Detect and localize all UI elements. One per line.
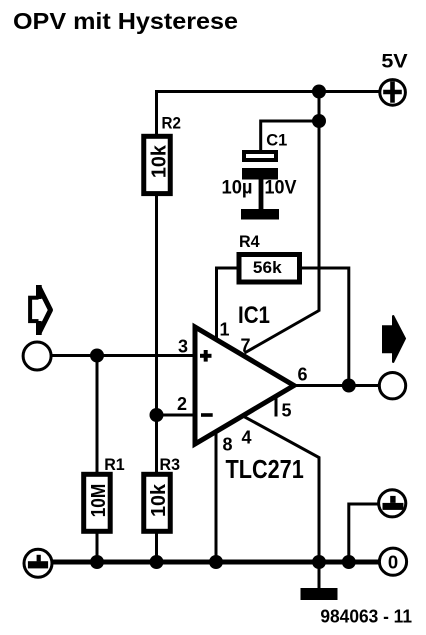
svg-text:56k: 56k (253, 258, 282, 277)
wire R4 right to output (302, 268, 349, 386)
wire C1 branch (261, 121, 319, 152)
svg-text:5: 5 (282, 401, 292, 421)
node junction C1 tap (312, 114, 326, 128)
wire pin2 (157, 414, 195, 417)
output arrow (383, 316, 405, 363)
svg-text:IC1: IC1 (238, 302, 270, 329)
node junction rail R1 (90, 555, 104, 569)
svg-text:3: 3 (178, 337, 188, 357)
svg-text:10V: 10V (265, 178, 297, 199)
output terminal (379, 373, 405, 399)
node junction divider pin2 (150, 408, 164, 422)
node junction rail ground (312, 555, 326, 569)
ground main (301, 588, 338, 600)
svg-text:2: 2 (177, 394, 187, 414)
node junction top rail (312, 85, 326, 99)
input terminal (23, 342, 51, 370)
svg-text:10k: 10k (147, 483, 170, 517)
node junction rail earth (342, 555, 356, 569)
capacitor C1 (222, 131, 297, 199)
svg-text:10M: 10M (87, 484, 110, 518)
svg-text:R4: R4 (239, 233, 260, 251)
input arrow (30, 285, 50, 335)
resistor R4 (239, 233, 300, 282)
terminal earth left (24, 549, 52, 577)
svg-text:984063 - 11: 984063 - 11 (320, 607, 412, 627)
svg-text:R2: R2 (162, 115, 181, 133)
op-amp plus input mark (200, 350, 212, 362)
svg-text:R3: R3 (160, 456, 181, 474)
node junction output (342, 379, 356, 393)
wire R4 left to pin1 (217, 268, 238, 341)
resistor R2 (144, 115, 181, 194)
wire earth terminal branch (349, 504, 378, 563)
wire bottom ground rail (52, 560, 379, 565)
wire top 5V rail (157, 90, 380, 93)
svg-text:6: 6 (298, 365, 308, 385)
wire pin7 diagonal (245, 311, 320, 354)
terminal 0 (379, 548, 406, 575)
wire pin4 to ground (243, 416, 319, 589)
svg-text:1: 1 (220, 320, 230, 340)
svg-text:8: 8 (223, 435, 233, 455)
wire pin8 vertical (215, 431, 218, 563)
op-amp U1 triangle (195, 327, 294, 444)
node junction rail R3 (150, 555, 164, 569)
power terminal 5V (380, 52, 408, 106)
wire R2 top drop / divider vertical x=156.5 (155, 90, 158, 563)
svg-text:OPV mit Hysterese: OPV mit Hysterese (13, 8, 238, 34)
node junction rail pin8 (209, 555, 223, 569)
resistor R1 (84, 456, 125, 531)
svg-text:TLC271: TLC271 (226, 456, 304, 484)
terminal earth right (379, 490, 406, 517)
svg-text:4: 4 (242, 428, 252, 448)
wire R1 vertical x=97 (96, 356, 99, 564)
resistor R3 (144, 456, 180, 531)
wire output pin6 (294, 384, 380, 387)
svg-text:10k: 10k (148, 145, 171, 179)
wire pin5 stub (275, 396, 278, 417)
svg-text:C1: C1 (266, 131, 287, 150)
ground C1 (241, 180, 279, 220)
svg-text:7: 7 (241, 336, 251, 356)
svg-text:R1: R1 (104, 456, 125, 474)
wire 5V vertical drop x=319 (318, 92, 321, 312)
node junction input/R1 (90, 349, 104, 363)
svg-text:10µ: 10µ (222, 178, 253, 199)
svg-text:5V: 5V (381, 52, 408, 73)
wire input to pin3 (52, 354, 195, 357)
svg-text:0: 0 (388, 551, 398, 572)
op-amp minus input mark (201, 413, 213, 417)
